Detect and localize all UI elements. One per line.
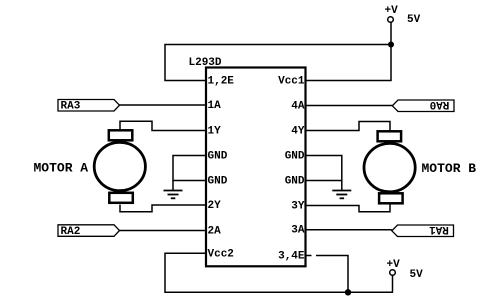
motor M1 MOTOR A: [94, 130, 145, 203]
pin label 1Y: [208, 126, 222, 138]
pin label 3,4E: [278, 251, 305, 263]
net flag RA1 (rotated): [392, 223, 454, 236]
wire pin 2Y to motor A bottom terminal: [120, 205, 206, 212]
ground symbol (left): [164, 181, 183, 199]
pin stub 3,4E: [306, 255, 312, 257]
pin label 2Y: [208, 200, 222, 212]
wire RA2 to pin 2A: [120, 230, 207, 232]
svg-text:4Y: 4Y: [291, 126, 305, 138]
svg-text:RA1: RA1: [429, 223, 449, 235]
junction top: [388, 42, 394, 48]
wire GND bracket (right): [306, 156, 342, 181]
pin label Vcc1: [278, 76, 305, 88]
svg-text:1A: 1A: [208, 100, 222, 112]
svg-text:RA2: RA2: [61, 226, 81, 238]
net flag RA3: [58, 100, 120, 113]
svg-text:3A: 3A: [291, 225, 305, 237]
pin label GND (right top): [285, 151, 305, 163]
wire +V drop to Vcc1: [306, 23, 391, 81]
wire pin 4A to RA0: [306, 105, 392, 107]
svg-text:GND: GND: [208, 176, 228, 188]
svg-text:1Y: 1Y: [208, 126, 222, 138]
svg-text:GND: GND: [208, 151, 228, 163]
svg-text:5V: 5V: [410, 269, 424, 281]
pin label 3A: [291, 225, 305, 237]
junction bottom: [345, 289, 351, 295]
pin label 4Y: [291, 126, 305, 138]
net flag RA0 (rotated): [392, 98, 454, 111]
svg-text:3,4E: 3,4E: [278, 251, 305, 263]
svg-text:Vcc2: Vcc2: [208, 249, 234, 261]
label MOTOR A: [34, 161, 89, 176]
wire 3,4E to bottom rail: [316, 256, 348, 293]
svg-text:Vcc1: Vcc1: [278, 76, 305, 88]
svg-text:RA3: RA3: [61, 101, 81, 113]
power +V 5V (top): [385, 5, 421, 26]
svg-text:RA0: RA0: [430, 98, 450, 110]
wire GND bracket (left): [173, 156, 206, 181]
pin label 2A: [208, 226, 222, 238]
pin label Vcc2: [208, 249, 234, 261]
svg-text:+V: +V: [385, 5, 399, 17]
motor M2 MOTOR B: [364, 131, 415, 203]
wire RA3 to pin 1A: [120, 104, 207, 106]
svg-text:GND: GND: [285, 176, 305, 188]
power +V 5V (bottom): [387, 259, 424, 281]
svg-text:GND: GND: [285, 151, 305, 163]
pin label 1A: [208, 100, 222, 112]
svg-text:MOTOR A: MOTOR A: [34, 161, 89, 176]
svg-text:MOTOR B: MOTOR B: [422, 161, 477, 176]
net flag RA2: [58, 225, 120, 238]
svg-text:1,2E: 1,2E: [208, 76, 235, 88]
svg-text:2A: 2A: [208, 226, 222, 238]
wire pin 4Y to motor B top terminal: [306, 122, 390, 131]
svg-text:L293D: L293D: [189, 57, 222, 69]
label L293D: [189, 57, 222, 69]
pin label GND (right bottom): [285, 176, 305, 188]
pin label GND (left top): [208, 151, 228, 163]
pin label GND (left bottom): [208, 176, 228, 188]
svg-text:5V: 5V: [407, 14, 421, 26]
ground symbol (right): [332, 181, 351, 199]
wire enable loop 1,2E to +V (top): [165, 45, 391, 81]
pin label 4A: [291, 101, 305, 113]
svg-text:2Y: 2Y: [208, 200, 222, 212]
wire Vcc2 to bottom rail: [165, 253, 393, 292]
svg-text:3Y: 3Y: [291, 201, 305, 213]
pin label 1,2E: [208, 76, 235, 88]
pin label 3Y: [291, 201, 305, 213]
wire pin 3Y to motor B bottom terminal: [306, 205, 390, 212]
svg-text:4A: 4A: [291, 101, 305, 113]
IC U1 L293D body: [206, 68, 306, 267]
wire pin 1Y to motor A top terminal: [120, 121, 206, 130]
label MOTOR B: [422, 161, 477, 176]
wire bottom rail to +V (bottom): [392, 275, 394, 292]
wire pin 3A to RA1: [306, 229, 392, 231]
